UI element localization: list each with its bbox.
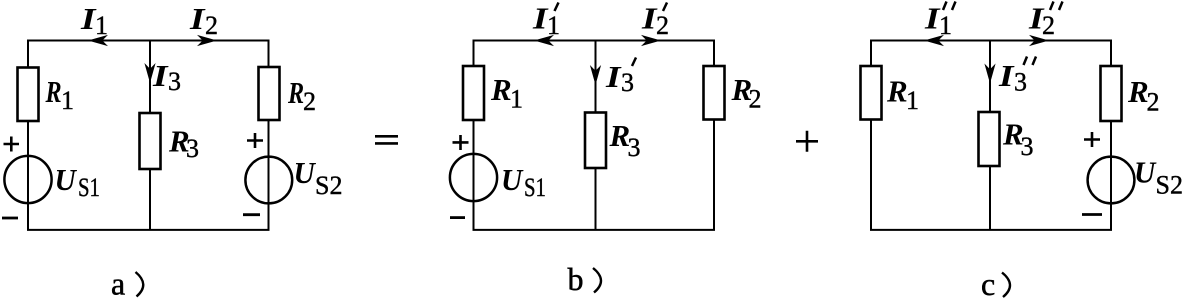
svg-text:R: R: [1127, 74, 1149, 109]
svg-text:S2: S2: [315, 171, 342, 200]
svg-text:2: 2: [303, 87, 316, 116]
circuit b: bottom wire: [473, 229, 716, 231]
resistor R2 (circuit c): [1101, 66, 1122, 121]
polarity plus US2 (circuit a): [247, 133, 263, 148]
svg-text:1: 1: [510, 85, 523, 114]
label US2 (circuit c): [1134, 155, 1157, 190]
label I3 prime: [605, 60, 622, 94]
svg-text:U: U: [294, 155, 317, 190]
label US2 (circuit a): [294, 155, 317, 190]
circuit c: left branch wire: [870, 40, 872, 231]
svg-text:R: R: [886, 74, 908, 109]
svg-text:2: 2: [1042, 11, 1055, 40]
svg-text:3: 3: [621, 68, 634, 97]
circuit a: top wire: [27, 40, 269, 42]
resistor R3 (circuit c): [979, 112, 1000, 166]
circuit a: left branch wire: [27, 40, 29, 231]
voltage source US2 (circuit c): [1088, 157, 1135, 204]
label I2: [189, 2, 206, 36]
svg-text:2: 2: [656, 11, 669, 40]
label I1 prime: [532, 1, 549, 35]
circuit c: top wire: [870, 40, 1111, 42]
label US1 (circuit b): [501, 162, 524, 197]
label I2 double prime: [1028, 1, 1045, 35]
polarity plus US1 (circuit b): [453, 135, 469, 150]
svg-text:R: R: [490, 72, 512, 107]
svg-text:R: R: [45, 75, 62, 110]
polarity minus US1 (circuit b): [450, 216, 465, 219]
resistor R3 (circuit a): [140, 113, 161, 169]
svg-text:2: 2: [749, 85, 762, 114]
label I2 prime: [641, 1, 658, 35]
current arrow I3 (circuit a): [144, 63, 155, 83]
svg-text:I: I: [998, 59, 1015, 93]
svg-text:a: a: [111, 266, 125, 299]
circuit b: top wire: [473, 40, 715, 42]
circuit a: right branch wire: [268, 40, 270, 231]
current arrow I2 (circuit a): [197, 35, 217, 46]
circuit b: middle branch wire: [595, 41, 597, 231]
circuit c: bottom wire: [870, 229, 1112, 231]
svg-text:U: U: [55, 162, 78, 197]
svg-text:c: c: [981, 266, 995, 299]
svg-text:3: 3: [628, 133, 641, 162]
polarity minus US2 (circuit a): [243, 213, 260, 216]
svg-text:S2: S2: [1156, 171, 1183, 200]
svg-text:U: U: [1134, 155, 1157, 190]
equals sign operator: [375, 136, 398, 143]
polarity minus US2 (circuit c): [1082, 213, 1102, 216]
svg-text:S1: S1: [524, 174, 546, 203]
svg-text:U: U: [501, 162, 524, 197]
svg-text:2: 2: [205, 11, 218, 40]
svg-text:3: 3: [168, 67, 181, 96]
polarity plus US1 (circuit a): [4, 137, 20, 152]
resistor R1 (circuit b): [463, 66, 484, 120]
svg-text:S1: S1: [78, 174, 100, 203]
circuit c: middle branch wire: [989, 41, 991, 231]
current arrow I3 prime (circuit b): [590, 65, 601, 85]
svg-text:I: I: [152, 59, 169, 93]
resistor R3 (circuit b): [585, 113, 606, 169]
svg-text:1: 1: [61, 86, 74, 115]
circuit b: right branch wire: [713, 40, 715, 231]
label I3: [152, 59, 169, 93]
current arrow I1 prime (circuit b): [534, 35, 554, 46]
label R1 (circuit a): [45, 75, 62, 110]
current arrow I1 (circuit a): [88, 35, 108, 46]
resistor R1 (circuit a): [18, 68, 39, 122]
svg-text:2: 2: [1147, 88, 1160, 117]
svg-text:3: 3: [1021, 132, 1034, 161]
svg-text:3: 3: [186, 134, 199, 163]
label US1 (circuit a): [55, 162, 78, 197]
voltage source US1 (circuit a): [4, 156, 51, 203]
svg-text:1: 1: [906, 86, 919, 115]
voltage source US2 (circuit a): [245, 157, 292, 204]
current arrow I1 double prime (circuit c): [924, 35, 944, 46]
resistor R2 (circuit b): [704, 66, 725, 120]
current arrow I2 double prime (circuit c): [1029, 35, 1049, 46]
label I3 double prime: [998, 59, 1015, 93]
svg-text:I: I: [605, 60, 622, 94]
svg-text:I: I: [189, 2, 206, 36]
circuit c: right branch wire: [1110, 40, 1112, 231]
circuit a: bottom wire: [27, 229, 270, 231]
voltage source US1 (circuit b): [450, 154, 497, 201]
svg-text:b: b: [568, 261, 584, 297]
circuit b: left branch wire: [473, 40, 475, 231]
svg-text:3: 3: [1014, 68, 1027, 97]
current arrow I2 prime (circuit b): [641, 35, 661, 46]
label I1: [80, 2, 97, 36]
resistor R2 (circuit a): [259, 67, 280, 120]
circuit a: middle branch wire: [149, 41, 151, 231]
svg-text:R: R: [287, 76, 304, 111]
polarity plus US2 (circuit c): [1084, 132, 1100, 147]
polarity minus US1 (circuit a): [2, 217, 18, 220]
label R2 (circuit a): [287, 76, 304, 111]
resistor R1 (circuit c): [861, 66, 882, 120]
plus sign operator: [796, 131, 818, 152]
svg-text:1: 1: [939, 11, 952, 40]
svg-text:1: 1: [547, 11, 560, 40]
current arrow I3 double prime (circuit c): [984, 64, 995, 84]
label I1 double prime: [924, 1, 941, 35]
svg-text:1: 1: [95, 11, 108, 40]
